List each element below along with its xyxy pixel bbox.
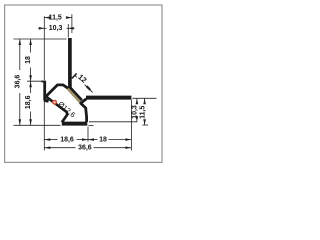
svg-text:11,5: 11,5 — [139, 106, 146, 119]
svg-text:18,6: 18,6 — [25, 95, 32, 109]
svg-text:36,6: 36,6 — [78, 144, 92, 151]
svg-text:18: 18 — [25, 56, 32, 64]
svg-text:36,6: 36,6 — [14, 75, 21, 89]
svg-text:10,3: 10,3 — [49, 25, 63, 32]
svg-text:18: 18 — [99, 137, 107, 144]
svg-text:18,6: 18,6 — [60, 137, 74, 144]
svg-text:10,3: 10,3 — [132, 105, 139, 119]
svg-text:11,5: 11,5 — [49, 14, 62, 21]
